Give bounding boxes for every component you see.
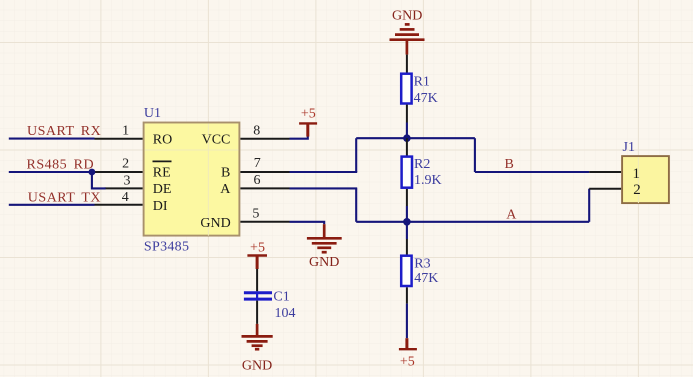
svg-text:R3: R3: [414, 256, 430, 271]
svg-text:C1: C1: [273, 289, 289, 304]
U1 pin 7 B: [240, 156, 289, 172]
U1 pin 5 GND: [240, 206, 289, 221]
wire R2 bottom stub: [406, 189, 408, 206]
U1 pin 6 A: [240, 173, 289, 189]
svg-text:A: A: [506, 208, 517, 223]
svg-text:GND: GND: [392, 9, 422, 24]
svg-text:DE: DE: [153, 182, 172, 197]
svg-text:7: 7: [254, 156, 261, 171]
wire USART_RX: [9, 138, 95, 140]
power symbol GND (top): [390, 9, 425, 55]
svg-text:SP3485: SP3485: [144, 239, 189, 254]
svg-text:8: 8: [253, 123, 260, 138]
svg-text:3: 3: [124, 173, 131, 188]
IC U1 SP3485: [144, 106, 240, 254]
svg-text:1.9K: 1.9K: [414, 173, 442, 188]
wire R1 to node B-divider: [406, 123, 408, 139]
U1 pin 3 DE: [105, 173, 143, 188]
svg-text:GND: GND: [242, 358, 272, 373]
wire R3 bottom stub: [406, 287, 408, 303]
svg-text:B: B: [221, 166, 230, 181]
net label USART_TX: [28, 191, 101, 206]
junction node RS485_RD/pin2/pin3: [89, 169, 96, 176]
svg-text:DI: DI: [153, 199, 168, 214]
svg-text:USART RX: USART RX: [27, 124, 101, 139]
svg-text:R1: R1: [414, 75, 430, 90]
wire B rail left drop to pin7: [355, 138, 357, 172]
resistor R2: [402, 157, 442, 188]
svg-text:RS485 RD: RS485 RD: [27, 158, 95, 173]
svg-text:+5: +5: [301, 106, 316, 121]
resistor R1: [401, 74, 438, 107]
net label B: [505, 157, 514, 172]
svg-text:R2: R2: [414, 157, 430, 172]
wire A rail rise to J1 pin2: [588, 189, 590, 222]
J1 pin 1: [589, 171, 621, 173]
connector J1: [622, 140, 669, 203]
svg-text:A: A: [220, 182, 231, 197]
J1 pin 2: [589, 188, 621, 190]
power symbol GND (at U1 pin5): [307, 224, 342, 270]
svg-text:1: 1: [122, 123, 129, 138]
wire A rail horizontal: [356, 221, 589, 223]
wire GND to R1: [406, 55, 408, 73]
power symbol +5 (bottom, feeds R3): [399, 338, 417, 369]
svg-text:B: B: [505, 157, 514, 172]
wire pin8 to +5: [290, 136, 308, 139]
wire RS485_RD branch to pin3: [92, 172, 106, 188]
wire R1 bottom stub: [406, 105, 408, 123]
power symbol GND (below C1): [242, 324, 273, 374]
net label A: [506, 208, 517, 223]
svg-text:GND: GND: [309, 255, 339, 270]
svg-text:GND: GND: [200, 216, 230, 231]
net label USART_RX: [27, 124, 101, 139]
wire R2 to node A rail: [406, 206, 408, 222]
wire pin7 to B rail: [290, 171, 358, 173]
svg-text:1: 1: [632, 166, 640, 182]
wire R3 top stub: [406, 239, 408, 255]
U1 pin 8 VCC: [240, 123, 289, 138]
svg-text:2: 2: [633, 182, 641, 198]
svg-text:6: 6: [254, 173, 261, 188]
svg-text:4: 4: [122, 190, 129, 205]
svg-text:2: 2: [122, 156, 129, 171]
wire A rail to R3: [406, 222, 408, 239]
wire R2 top stub: [406, 138, 408, 156]
svg-text:RO: RO: [153, 133, 172, 148]
wire A rail left drop from pin6: [355, 188, 357, 221]
wire USART_TX: [9, 204, 95, 206]
svg-text:VCC: VCC: [202, 133, 231, 148]
wire B rail horizontal: [356, 137, 475, 139]
power symbol +5 (above C1): [247, 241, 267, 269]
svg-text:RE: RE: [153, 166, 171, 181]
wire RS485_RD: [9, 171, 92, 173]
svg-text:5: 5: [252, 206, 259, 221]
wire +5 to C1: [256, 269, 258, 291]
junction node R1/R2/B rail: [403, 134, 411, 142]
net label RS485_RD: [27, 158, 95, 173]
svg-text:+5: +5: [250, 241, 265, 256]
wire B to J1 pin1: [475, 171, 589, 173]
wire pin6 to A rail: [290, 187, 358, 189]
svg-text:U1: U1: [144, 106, 161, 121]
svg-text:J1: J1: [623, 140, 635, 155]
wire C1 to GND: [256, 301, 258, 324]
svg-text:47K: 47K: [414, 271, 438, 286]
svg-text:+5: +5: [400, 355, 415, 370]
power symbol +5 (at U1 VCC): [299, 106, 317, 136]
wire B rail right drop to J1: [474, 138, 476, 172]
junction node R2/R3/A rail: [403, 218, 411, 226]
svg-text:USART TX: USART TX: [28, 191, 101, 206]
U1 pin 2 RE: [94, 156, 143, 172]
wire R3 to +5: [406, 304, 408, 339]
svg-text:47K: 47K: [414, 91, 438, 106]
svg-text:104: 104: [275, 306, 296, 321]
U1 pin 1 RO: [95, 123, 143, 138]
capacitor C1: [244, 289, 296, 321]
resistor R3: [401, 256, 438, 286]
wire pin5 to GND: [290, 222, 325, 225]
U1 pin 4 DI: [95, 190, 143, 205]
